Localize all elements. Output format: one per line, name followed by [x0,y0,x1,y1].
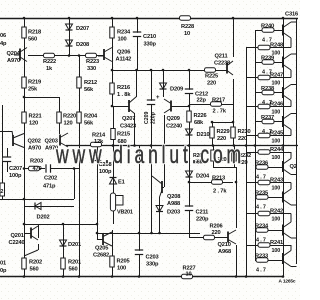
svg-text:C209: C209 [144,111,150,124]
wire R217 row [189,104,233,106]
node junction [150,232,153,235]
wire Q209 base lead [171,106,189,108]
svg-text:R246: R246 [270,102,283,108]
wire R244 row [246,152,291,154]
resistor R231 [211,150,215,161]
svg-text:R228: R228 [181,24,194,30]
resistor R245 [258,133,270,137]
svg-text:C210: C210 [143,34,156,40]
transistor Q output 8 [283,245,297,267]
svg-text:R248: R248 [270,43,283,49]
svg-text:R241: R241 [270,240,283,246]
resistor R235 [256,195,268,199]
wire Q201 emitter bend [24,250,38,256]
diode D201 [60,240,67,246]
svg-text:Q205: Q205 [95,246,108,252]
svg-text:R216: R216 [117,85,130,91]
wire R206 row [189,237,228,239]
node junction [68,54,71,57]
svg-text:100: 100 [272,186,281,192]
svg-text:R237: R237 [261,115,274,121]
svg-text:100p: 100p [99,169,112,175]
svg-text:220: 220 [212,230,221,236]
resistor R212 [77,77,81,88]
svg-text:C316: C316 [285,12,298,18]
svg-text:R234: R234 [255,224,269,230]
resistor R214 [91,142,102,146]
node junction [23,223,26,226]
node junction [111,105,114,108]
wire Q210 emitter leg [236,245,238,276]
capacitor C203 [135,250,143,255]
transistor Q output 5 [283,152,297,175]
svg-text:560: 560 [30,267,39,273]
svg-text:R201: R201 [68,260,81,266]
svg-text:R225: R225 [205,74,218,80]
resistor R242 [258,211,270,215]
wire D207-D208 column [69,18,71,55]
node junction [158,232,161,235]
svg-text:R214: R214 [92,133,106,139]
wire R230 leg [233,122,235,145]
wire C212-D210 column [189,70,191,145]
wire R220 column [59,97,61,134]
svg-text:A1142: A1142 [116,57,132,63]
resistor R246 [258,104,270,108]
svg-text:R243: R243 [270,178,283,184]
transistor Q208 [152,176,162,197]
svg-text:56k: 56k [84,87,94,93]
svg-text:100: 100 [272,155,281,161]
transistor Q output 2 [283,54,297,78]
svg-text:220: 220 [207,81,216,87]
wire output collector bus [296,18,298,264]
svg-text:120: 120 [29,121,38,127]
resistor R204 [77,112,81,123]
transistor Q211 [227,61,233,75]
wire R247 row [246,77,291,79]
wire R245 row [246,135,291,137]
transistor Q205 [103,232,112,246]
node junction [188,144,191,147]
wire right bank rail B [255,30,257,260]
svg-text:D207: D207 [76,26,89,32]
svg-text:VB201: VB201 [117,210,133,216]
wire R234-Q206 column [112,18,114,106]
svg-text:R230: R230 [238,129,251,135]
resistor R203 [29,166,40,170]
resistor R240 [262,28,274,32]
wire input row y199 [0,199,24,201]
transistor Q output 6 [283,183,297,206]
svg-text:R238: R238 [261,86,274,92]
diode D208 [66,40,73,46]
svg-text:C2238: C2238 [214,61,230,67]
svg-text:R202: R202 [29,260,42,266]
svg-text:C202: C202 [44,176,57,182]
wire Q205-R205 column [112,230,114,276]
wire R243 row [246,182,291,184]
wire R229-R230 top bar [212,122,233,124]
node junction [235,181,238,184]
wire Q206 base lead [98,55,104,57]
node junction [138,275,141,278]
resistor R206 [204,235,215,239]
svg-text:R239: R239 [261,56,274,62]
resistor R244 [258,150,270,154]
svg-text:4p: 4p [0,41,7,47]
svg-text:4 . 7: 4 . 7 [256,268,266,274]
svg-text:Q208: Q208 [167,194,180,200]
wire R238 row [255,92,283,94]
resistor R248 [258,45,270,49]
resistor R247 [258,75,270,79]
node junction [138,232,141,235]
svg-text:C3423: C3423 [120,124,136,130]
resistor R241 [258,243,270,247]
wire R246 row [246,106,291,108]
wire Q211 emitter leg [233,79,235,122]
node junction [254,144,257,147]
svg-text:R213: R213 [212,176,225,182]
svg-text:2: 2 [1,189,4,195]
transistor Q201 [31,226,38,240]
svg-text:R247: R247 [270,73,283,79]
resistor R202 [22,258,26,269]
svg-text:R221: R221 [29,114,42,120]
wire Q210 collector leg [236,167,238,228]
svg-text:R205: R205 [117,259,130,265]
svg-text:2 . 7k: 2 . 7k [213,109,227,115]
capacitor C207 [3,157,11,162]
svg-text:100: 100 [118,37,127,43]
wire R231 leg [213,145,215,167]
wire Q208 base stub [162,187,164,189]
svg-text:D201: D201 [68,242,81,248]
wire C207 bottom lead [7,162,9,173]
resistor R216 [110,83,114,94]
svg-text:Q209: Q209 [167,116,180,122]
svg-text:560: 560 [69,267,78,273]
wire Q211 collector leg [233,18,235,57]
svg-text:100: 100 [117,266,126,272]
svg-text:Q207: Q207 [122,116,135,122]
wire Q207 collector leg [136,70,138,97]
node junction [282,144,285,147]
resistor R226 [187,111,191,122]
svg-text:R206: R206 [210,224,223,230]
svg-text:R226: R226 [194,113,207,119]
wire C211 column [189,145,191,237]
wire Q209 emitter leg [164,115,166,145]
svg-text:10: 10 [184,31,190,37]
svg-text:A970: A970 [28,146,41,152]
wire Q207 base lead [112,106,129,108]
wire right bank rail A [246,48,248,277]
wire R241 row [246,245,291,247]
wire R232 leg [234,145,236,167]
diode D210 [186,129,193,135]
wire Q201 base lead [24,233,31,235]
diode D202 [35,203,41,210]
wire left input column [2,105,4,199]
capacitor C202 [46,164,51,172]
svg-text:A 1265c: A 1265c [279,279,296,285]
resistor R228 [180,16,191,20]
svg-text:100: 100 [272,139,281,145]
resistor R219 [22,77,26,88]
wire C210 column [137,18,139,70]
wire C208 column [97,145,99,240]
node junction [211,121,214,124]
wire Q208 base leg [164,145,166,187]
svg-text:1k: 1k [46,66,53,72]
svg-text:R222: R222 [43,59,56,65]
svg-text:68k: 68k [194,120,204,126]
wire R233 row [255,260,283,262]
wire Q202 base stub [12,131,13,137]
svg-text:www.dianlut.com: www.dianlut.com [55,140,245,169]
svg-text:R244: R244 [270,147,284,153]
svg-text:4 . 7: 4 . 7 [256,205,266,211]
svg-text:560: 560 [28,37,37,43]
svg-text:220p: 220p [196,217,209,223]
transistor Q output 7 [283,214,297,239]
resistor R232 [232,150,236,161]
node junction [96,232,99,235]
wire mid output rail [66,145,298,147]
svg-text:D203: D203 [167,210,180,216]
wire D203 leg [159,197,161,233]
wire Q204 base stub [14,54,20,56]
resistor R229 [210,127,214,138]
node junction [112,144,115,147]
wire R203 row right [51,168,79,170]
node junction [232,17,235,20]
svg-text:R233: R233 [255,254,268,260]
node junction [68,17,71,20]
wire left main column [24,18,26,276]
wire R242 row [246,213,291,215]
svg-text:100: 100 [272,248,281,254]
wire R203 row left [24,168,45,170]
transistor Q209 [164,99,171,113]
svg-text:A970: A970 [7,58,20,64]
node junction [188,181,191,184]
wire R248 row [246,47,291,49]
svg-text:D208: D208 [76,42,89,48]
svg-text:Q202: Q202 [28,139,41,145]
svg-text:R203: R203 [30,159,43,165]
svg-text:C203: C203 [146,255,159,261]
node junction [282,17,285,20]
svg-text:4 . 7: 4 . 7 [256,175,266,181]
capacitor C210 [133,32,141,37]
svg-text:D204: D204 [196,174,210,180]
resistor R221 [22,112,26,123]
resistor R230 [231,127,235,138]
resistor R215 [111,129,115,140]
wire R235 row [255,197,283,199]
svg-text:330p: 330p [146,262,159,268]
svg-text:1 . 8k: 1 . 8k [117,92,131,98]
svg-text:C207: C207 [9,166,22,172]
wire R234 row [255,230,283,232]
wire R215 leg [113,106,115,145]
svg-text:D209: D209 [170,87,183,93]
wire R229 leg [212,122,214,145]
resistor R223 [86,53,97,57]
wire D201 column [63,224,65,276]
resistor R236 [256,165,268,169]
node junction [62,275,65,278]
resistor R222 [44,53,55,57]
svg-text:R223: R223 [86,59,99,65]
diode D209 [160,83,167,89]
capacitor C209 [147,100,155,105]
zener E1 [110,178,117,185]
svg-text:120: 120 [64,121,73,127]
transistor Q210 [228,230,236,244]
svg-text:R220: R220 [63,114,76,120]
resistor R238 [262,90,274,94]
node junction [23,198,26,201]
wire upper mid rail [112,70,227,72]
node junction [96,223,99,226]
resistor R239 [262,60,274,64]
resistor R233 [256,258,268,262]
wire node row y97 [24,97,59,99]
node junction [78,275,81,278]
svg-text:R217: R217 [212,98,225,104]
svg-text:R229: R229 [217,129,230,135]
svg-text:25k: 25k [28,87,38,93]
node junction [111,275,114,278]
wire R213 row [189,182,233,184]
svg-text:C2240: C2240 [166,124,182,130]
wire R212 column [79,56,81,277]
resistor R225 [205,68,216,72]
node junction [23,17,26,20]
resistor R218 [22,27,26,38]
wire Q201 emitter lead [38,244,40,250]
wire bias row y224 [24,224,97,226]
svg-text:E1: E1 [118,180,125,186]
svg-text:56k: 56k [84,121,94,127]
node junction [111,69,114,72]
svg-text:22p: 22p [197,98,207,104]
wire Q201 collector lead [38,224,40,238]
diode D207 [66,24,73,30]
svg-text:Q201: Q201 [11,233,24,239]
node junction [163,144,166,147]
resistor R234 [256,228,268,232]
svg-text:R235: R235 [255,191,268,197]
wire D202 row end [64,206,74,208]
node junction [282,275,285,278]
svg-text:Q206: Q206 [117,50,130,56]
svg-text:10: 10 [186,272,192,278]
svg-text:R218: R218 [28,30,41,36]
node junction [23,167,26,170]
node junction [111,17,114,20]
diode D203 [156,206,163,212]
svg-text:330p: 330p [144,42,157,48]
node junction [112,144,115,147]
wire C203 column [139,145,141,276]
svg-text:C2682: C2682 [93,253,109,259]
wire VR201 wiper loop [116,196,123,206]
node junction [73,167,76,170]
transistor Q206 [104,48,112,62]
svg-text:Q211: Q211 [215,54,228,60]
svg-text:100: 100 [272,217,281,223]
resistor R234 [110,27,114,38]
node junction [188,69,191,72]
wire feedback column [74,169,76,200]
resistor R213 [212,180,223,184]
wire bias row y233 [97,233,200,235]
wire input stub [0,131,12,133]
svg-text:470: 470 [33,166,42,172]
transistor Q202 [13,134,24,148]
svg-text:Q2: Q2 [290,164,297,170]
wire R222-R223 row [28,55,104,57]
resistor R217 [211,102,222,106]
svg-text:D210: D210 [197,132,210,138]
node junction [212,144,215,147]
svg-text:A988: A988 [167,201,180,207]
svg-text:100p: 100p [9,173,22,179]
svg-text:C2240: C2240 [9,240,25,246]
wire C209 column [151,70,153,145]
node junction [232,121,235,124]
node junction [23,96,26,99]
transistor Q203 [60,133,68,147]
wire bias column [113,145,115,224]
resistor R243 [258,180,270,184]
wire R236 row [255,167,283,169]
capacitor C208 [93,156,101,161]
svg-text:R219: R219 [28,80,41,86]
resistor R227 [182,274,193,278]
node junction [245,275,248,278]
svg-text:C211: C211 [196,210,209,216]
node junction [78,54,81,57]
svg-text:D202: D202 [37,215,50,221]
node junction [233,144,236,147]
svg-text:Q210: Q210 [218,242,231,248]
node junction [23,275,26,278]
svg-text:220p: 220p [151,112,157,124]
wire D209 column [163,70,165,97]
wire C207 top lead [7,148,9,157]
wire top supply rail [0,18,298,20]
capacitor C211 [185,206,193,211]
svg-text:06: 06 [0,33,6,39]
svg-text:R236: R236 [255,161,268,167]
svg-text:01: 01 [0,261,6,267]
wire output base bus [283,18,285,276]
wire input row y199b [24,199,74,201]
node junction [62,223,65,226]
node junction [133,144,136,147]
svg-text:0p: 0p [0,268,7,274]
node junction [245,144,248,147]
svg-text:471p: 471p [43,184,56,190]
svg-text:R215: R215 [117,132,130,138]
resistor R201 [61,258,65,269]
